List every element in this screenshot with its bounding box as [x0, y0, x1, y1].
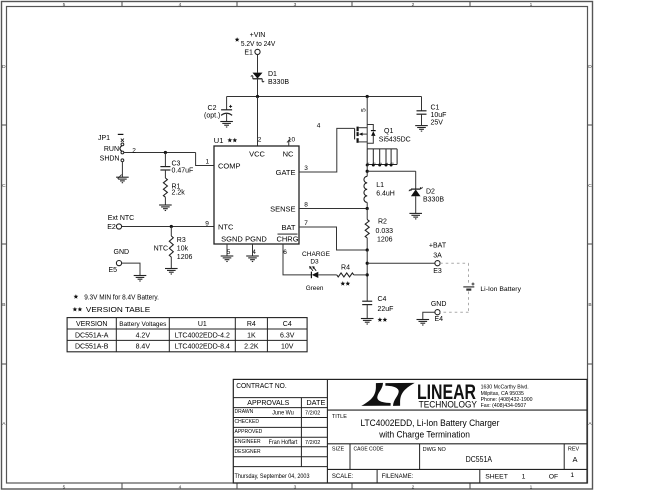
svg-text:3: 3 — [294, 484, 297, 490]
svg-text:CONTRACT NO.: CONTRACT NO. — [236, 383, 287, 390]
svg-text:Ext NTC: Ext NTC — [108, 215, 134, 222]
svg-text:1206: 1206 — [377, 236, 393, 243]
svg-text:Fax: (408)434-0507: Fax: (408)434-0507 — [481, 403, 527, 409]
svg-text:1: 1 — [385, 162, 389, 164]
svg-text:SGND: SGND — [221, 234, 243, 243]
svg-text:CHECKED: CHECKED — [235, 419, 260, 425]
svg-text:Q1: Q1 — [384, 128, 393, 135]
svg-text:JP1: JP1 — [98, 135, 110, 142]
svg-text:APPROVED: APPROVED — [235, 429, 263, 435]
svg-text:Si5435DC: Si5435DC — [379, 136, 411, 143]
svg-text:7/2/02: 7/2/02 — [305, 410, 320, 416]
svg-text:6.4uH: 6.4uH — [376, 191, 395, 198]
svg-text:TECHNOLOGY: TECHNOLOGY — [419, 400, 478, 411]
svg-text:REV: REV — [568, 447, 580, 453]
svg-text:RUN: RUN — [104, 146, 119, 153]
svg-text:E2: E2 — [107, 224, 116, 231]
svg-text:CAGE CODE: CAGE CODE — [354, 447, 384, 453]
svg-text:NTC: NTC — [154, 246, 168, 253]
svg-text:4.2V: 4.2V — [136, 332, 151, 339]
svg-text:10uF: 10uF — [431, 112, 447, 119]
svg-text:E5: E5 — [109, 267, 118, 274]
svg-text:OF: OF — [549, 473, 558, 480]
svg-text:C: C — [588, 183, 592, 189]
svg-text:U1: U1 — [198, 321, 207, 328]
svg-text:SIZE: SIZE — [332, 447, 345, 453]
svg-text:6: 6 — [283, 249, 287, 256]
svg-text:SHDN: SHDN — [100, 156, 120, 163]
svg-text:R4: R4 — [247, 321, 256, 328]
svg-text:SCALE:: SCALE: — [332, 474, 354, 480]
svg-text:4: 4 — [366, 162, 370, 164]
svg-text:3A: 3A — [433, 253, 442, 260]
svg-text:6.3V: 6.3V — [280, 332, 295, 339]
svg-text:(opt.): (opt.) — [204, 112, 220, 119]
svg-text:B330B: B330B — [423, 197, 444, 204]
svg-text:2: 2 — [132, 148, 136, 155]
svg-text:8: 8 — [304, 202, 308, 209]
svg-text:C1: C1 — [431, 104, 440, 111]
svg-text:A: A — [572, 455, 577, 464]
svg-text:C3: C3 — [172, 160, 181, 167]
svg-text:9.3V MIN for 8.4V Battery.: 9.3V MIN for 8.4V Battery. — [84, 294, 159, 301]
svg-text:CHRG: CHRG — [276, 234, 298, 243]
svg-text:DESIGNER: DESIGNER — [235, 449, 262, 455]
svg-text:1: 1 — [530, 484, 533, 490]
svg-text:E4: E4 — [435, 316, 444, 323]
svg-text:1: 1 — [530, 2, 533, 8]
svg-text:C2: C2 — [208, 105, 217, 112]
svg-text:2: 2 — [412, 484, 415, 490]
svg-text:DATE: DATE — [306, 398, 325, 407]
svg-text:VERSION TABLE: VERSION TABLE — [86, 305, 150, 314]
svg-text:U1: U1 — [214, 136, 224, 145]
svg-text:ENGINEER: ENGINEER — [235, 439, 262, 445]
svg-text:DC551A: DC551A — [466, 455, 493, 464]
svg-text:LTC4002EDD, Li-Ion Battery Cha: LTC4002EDD, Li-Ion Battery Charger — [361, 418, 500, 428]
svg-text:R4: R4 — [341, 264, 350, 271]
svg-text:7: 7 — [304, 220, 308, 227]
svg-text:LTC4002EDD-4.2: LTC4002EDD-4.2 — [175, 332, 230, 339]
svg-text:SHEET: SHEET — [485, 473, 508, 480]
svg-text:1: 1 — [205, 158, 209, 165]
svg-text:1: 1 — [570, 472, 574, 479]
svg-text:SENSE: SENSE — [270, 204, 295, 213]
svg-text:E1: E1 — [244, 50, 253, 57]
svg-text:Green: Green — [306, 285, 324, 292]
svg-text:June Wu: June Wu — [272, 410, 294, 416]
svg-text:Thursday, September 04, 2003: Thursday, September 04, 2003 — [235, 473, 310, 480]
svg-text:C4: C4 — [378, 296, 387, 303]
svg-text:CHARGE: CHARGE — [302, 251, 331, 258]
svg-text:L1: L1 — [376, 182, 384, 189]
svg-text:8: 8 — [390, 162, 394, 164]
svg-text:Phone: (408)432-1900: Phone: (408)432-1900 — [481, 397, 533, 403]
svg-text:10V: 10V — [281, 344, 294, 351]
svg-text:COMP: COMP — [218, 161, 241, 170]
svg-text:22uF: 22uF — [378, 306, 394, 313]
svg-text:9: 9 — [205, 221, 209, 228]
svg-text:5: 5 — [63, 2, 66, 8]
svg-text:D: D — [2, 64, 6, 70]
svg-text:E3: E3 — [433, 268, 442, 275]
svg-text:25V: 25V — [431, 119, 444, 126]
svg-text:DRAWN: DRAWN — [235, 409, 254, 415]
svg-text:D: D — [588, 64, 592, 70]
svg-text:8.4V: 8.4V — [136, 344, 151, 351]
svg-text:5: 5 — [360, 108, 367, 112]
svg-text:Milpitas, CA 95035: Milpitas, CA 95035 — [481, 391, 524, 397]
svg-text:4: 4 — [179, 2, 182, 8]
svg-text:1: 1 — [522, 473, 526, 480]
svg-text:NC: NC — [283, 149, 294, 158]
svg-text:1K: 1K — [247, 332, 256, 339]
svg-text:2.2k: 2.2k — [172, 190, 186, 197]
svg-text:C: C — [2, 183, 6, 189]
svg-text:LTC4002EDD-8.4: LTC4002EDD-8.4 — [175, 344, 230, 351]
svg-text:NTC: NTC — [218, 223, 234, 232]
svg-text:GND: GND — [431, 301, 447, 308]
svg-text:2: 2 — [258, 136, 262, 143]
svg-text:7/2/02: 7/2/02 — [305, 440, 320, 446]
svg-text:VERSION: VERSION — [76, 321, 108, 328]
svg-text:B: B — [588, 302, 591, 308]
svg-text:DC551A-B: DC551A-B — [75, 344, 109, 351]
svg-text:FILENAME:: FILENAME: — [382, 474, 414, 480]
svg-text:DC551A-A: DC551A-A — [75, 332, 109, 339]
svg-text:APPROVALS: APPROVALS — [247, 398, 289, 407]
svg-text:10k: 10k — [177, 246, 189, 253]
svg-text:R2: R2 — [378, 219, 387, 226]
svg-text:+VIN: +VIN — [250, 32, 266, 39]
svg-text:D3: D3 — [310, 258, 319, 265]
svg-text:GND: GND — [114, 249, 130, 256]
svg-text:+BAT: +BAT — [429, 243, 447, 250]
svg-text:4: 4 — [317, 123, 321, 130]
svg-text:0.033: 0.033 — [376, 228, 394, 235]
svg-text:R3: R3 — [177, 237, 186, 244]
svg-text:TITLE: TITLE — [332, 414, 347, 420]
svg-text:4: 4 — [179, 484, 182, 490]
svg-text:0.47uF: 0.47uF — [172, 168, 194, 175]
svg-text:3: 3 — [304, 165, 308, 172]
svg-text:1206: 1206 — [177, 254, 193, 261]
svg-text:BAT: BAT — [281, 223, 295, 232]
svg-text:B: B — [2, 302, 5, 308]
svg-text:3: 3 — [294, 2, 297, 8]
svg-text:C4: C4 — [283, 321, 292, 328]
svg-text:5.2V to 24V: 5.2V to 24V — [241, 41, 276, 48]
svg-text:1630 McCarthy Blvd.: 1630 McCarthy Blvd. — [481, 385, 529, 391]
svg-text:2.2K: 2.2K — [244, 344, 259, 351]
svg-text:DWG NO: DWG NO — [423, 447, 447, 453]
svg-text:Fran Hoffart: Fran Hoffart — [269, 440, 298, 446]
svg-text:D2: D2 — [426, 189, 435, 196]
svg-text:GATE: GATE — [276, 168, 296, 177]
svg-text:Li-Ion Battery: Li-Ion Battery — [480, 286, 521, 293]
svg-text:2: 2 — [379, 162, 383, 164]
svg-text:VCC: VCC — [249, 149, 265, 158]
svg-text:PGND: PGND — [245, 234, 267, 243]
svg-text:5: 5 — [63, 484, 66, 490]
svg-text:3: 3 — [373, 162, 377, 164]
svg-text:B330B: B330B — [268, 79, 289, 86]
svg-text:Battery Voltages: Battery Voltages — [119, 321, 167, 328]
svg-text:D1: D1 — [268, 71, 277, 78]
svg-text:2: 2 — [412, 2, 415, 8]
svg-text:with Charge Termination: with Charge Termination — [378, 429, 470, 439]
